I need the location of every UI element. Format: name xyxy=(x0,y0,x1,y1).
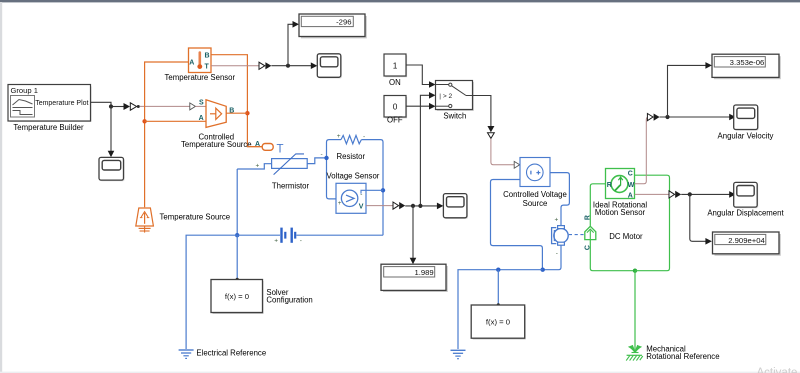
battery DC voltage source xyxy=(274,228,302,245)
wire battery row to battery xyxy=(237,234,280,236)
svg-text:+: + xyxy=(338,200,342,207)
PS wire sensor T output xyxy=(211,65,259,67)
svg-text:Rotational Reference: Rotational Reference xyxy=(646,352,719,361)
wire ON to switch xyxy=(406,65,429,85)
node W junction xyxy=(665,115,669,119)
svg-text:Voltage Sensor: Voltage Sensor xyxy=(327,172,380,181)
node V junction 1 xyxy=(411,204,415,208)
svg-text:+: + xyxy=(337,133,341,140)
wire V signal xyxy=(405,205,437,207)
svg-text:f(x) = 0: f(x) = 0 xyxy=(486,318,510,327)
scope T scope xyxy=(317,54,342,79)
wire down to solver config xyxy=(236,235,238,279)
block Temperature Sensor xyxy=(164,48,235,82)
block Solver Configuration xyxy=(211,280,313,315)
wire bottom rail to ground 2 xyxy=(458,270,543,349)
converter simulink to PS xyxy=(124,103,131,110)
svg-text:+: + xyxy=(274,237,278,244)
green wire C loop xyxy=(635,175,670,271)
svg-text:C: C xyxy=(628,170,633,177)
dashed mechanical connection motor to port xyxy=(569,234,584,236)
svg-text:ON: ON xyxy=(389,78,401,87)
block Controlled Temperature Source xyxy=(181,100,252,149)
wire voltage sensor + output xyxy=(366,189,383,191)
svg-text:T: T xyxy=(277,144,284,156)
svg-text:Switch: Switch xyxy=(443,111,466,120)
node T signal junction xyxy=(286,64,290,68)
node voltage sensor + junction xyxy=(381,188,385,192)
thermal port of thermistor xyxy=(262,144,273,151)
svg-text:A: A xyxy=(628,192,633,199)
svg-text:Temperature Sensor: Temperature Sensor xyxy=(164,73,235,82)
svg-text:Angular Displacement: Angular Displacement xyxy=(707,209,784,218)
resistor R1 xyxy=(329,133,381,161)
wire A down to display xyxy=(690,194,706,241)
canvas top border xyxy=(0,0,800,2)
scope V scope xyxy=(443,194,468,219)
PS wire A output xyxy=(635,193,670,195)
display 1.989 xyxy=(381,264,448,292)
converter PS to simulink W xyxy=(647,114,653,121)
wire CVS + to motor xyxy=(550,173,569,226)
wire builder output xyxy=(91,102,112,106)
svg-text:Thermistor: Thermistor xyxy=(272,182,310,191)
svg-text:+: + xyxy=(256,162,260,169)
svg-text:Resistor: Resistor xyxy=(336,152,365,161)
svg-text:Temperature Source: Temperature Source xyxy=(181,140,252,149)
scope Temperature Plot scope xyxy=(99,157,125,181)
svg-text:-: - xyxy=(363,134,365,141)
node builder junction xyxy=(109,104,113,108)
wire V down to display xyxy=(412,206,414,259)
canvas bottom border xyxy=(0,372,800,373)
wire thermistor thermal port xyxy=(247,146,262,148)
wire to controlled temp source A port xyxy=(145,120,206,122)
converter PS to simulink xyxy=(393,202,399,209)
node A junction xyxy=(688,192,692,196)
wire resistor loop right vertical xyxy=(381,140,384,236)
node green junction xyxy=(633,269,637,273)
wire thermal net B (sensor B right rail) xyxy=(211,55,262,147)
node battery row left junction xyxy=(235,233,239,237)
svg-text:Configuration: Configuration xyxy=(266,296,312,305)
svg-text:0: 0 xyxy=(393,102,398,112)
svg-text:W: W xyxy=(628,182,635,189)
node solver 2 junction xyxy=(496,268,500,272)
block Voltage Sensor xyxy=(327,172,380,214)
mechanical rotational reference xyxy=(626,345,719,362)
svg-text:Electrical Reference: Electrical Reference xyxy=(196,349,266,358)
svg-text:+: + xyxy=(555,217,559,224)
wire left electrical rail xyxy=(236,169,238,235)
svg-text:Motion Sensor: Motion Sensor xyxy=(595,208,646,217)
DC motor icon xyxy=(552,226,569,257)
wire W signal xyxy=(660,116,730,118)
svg-text:A: A xyxy=(199,115,204,122)
svg-text:2.909e+04: 2.909e+04 xyxy=(728,236,765,245)
PS wire voltage sensor V output xyxy=(366,205,393,207)
svg-text:Controlled Voltage: Controlled Voltage xyxy=(503,190,567,199)
node motor bottom junction xyxy=(541,268,545,272)
block Temperature Builder xyxy=(8,85,92,132)
green wire down to rotational reference xyxy=(634,271,636,346)
svg-text:| > 2: | > 2 xyxy=(439,93,452,100)
wire CTS B output xyxy=(226,112,247,114)
svg-text:-: - xyxy=(556,250,558,257)
green wire below house to bottom xyxy=(590,240,635,271)
svg-text:T: T xyxy=(205,64,210,71)
svg-text:A: A xyxy=(189,60,194,67)
svg-text:Temperature Builder: Temperature Builder xyxy=(13,123,84,132)
PS wire to controlled voltage source xyxy=(491,139,514,165)
thermal reference Temperature Source symbol xyxy=(136,208,230,233)
block Ideal Rotational Motion Sensor xyxy=(593,169,647,218)
wire resistor loop left vertical xyxy=(327,140,337,199)
svg-text:Activate W: Activate W xyxy=(757,367,800,373)
block Switch xyxy=(436,81,474,121)
converter simulink to PS (down) xyxy=(487,126,494,132)
svg-text:OFF: OFF xyxy=(387,116,403,125)
arrow into angular velocity scope xyxy=(729,114,736,121)
svg-text:Source: Source xyxy=(523,199,548,208)
scope Angular Velocity xyxy=(718,105,774,140)
svg-text:3.353e-06: 3.353e-06 xyxy=(730,58,765,67)
wire switch output down xyxy=(473,96,491,127)
arrow into angular displacement scope xyxy=(729,191,736,198)
node thermal B junction xyxy=(245,111,249,115)
display -296 xyxy=(299,14,367,38)
svg-text:S: S xyxy=(199,100,204,107)
wire battery to right rail xyxy=(297,234,384,236)
svg-text:A: A xyxy=(255,141,260,148)
arrow into scope xyxy=(311,62,318,69)
svg-text:Group 1: Group 1 xyxy=(11,86,38,95)
svg-text:-: - xyxy=(321,151,323,158)
block constant ON xyxy=(384,54,407,87)
display 3.353e-06 xyxy=(712,54,781,79)
converter PS to simulink A xyxy=(669,191,675,198)
wire up to display -296 xyxy=(288,24,293,65)
PS wire W output xyxy=(635,117,649,184)
wire A signal xyxy=(681,193,729,195)
scope Angular Displacement xyxy=(707,182,784,217)
converter PS to simulink xyxy=(259,62,265,69)
canvas left border xyxy=(0,2,2,373)
svg-text:1: 1 xyxy=(393,60,398,70)
electrical reference ground 2 xyxy=(451,350,466,358)
block constant OFF xyxy=(384,96,407,125)
svg-text:R: R xyxy=(607,182,612,189)
node thermistor junction xyxy=(324,156,328,160)
wire V signal up to switch middle input xyxy=(420,95,429,206)
svg-text:V: V xyxy=(359,204,364,211)
svg-text:Temperature Plot: Temperature Plot xyxy=(35,100,88,107)
svg-text:Angular Velocity: Angular Velocity xyxy=(718,131,774,140)
wire thermal net A (sensor A to left rail) xyxy=(145,62,189,207)
wire motor - to bottom rail xyxy=(543,245,561,269)
electrical reference ground 1 xyxy=(179,349,267,359)
PS wire to S port xyxy=(140,105,190,107)
arrow into V scope xyxy=(437,203,444,210)
display 2.909e+04 xyxy=(713,232,781,256)
wire to electrical reference xyxy=(186,235,237,349)
svg-text:Temperature Source: Temperature Source xyxy=(160,212,231,221)
connection port house R xyxy=(584,215,596,250)
block Thermistor xyxy=(237,151,326,191)
wire OFF to switch xyxy=(406,105,429,107)
svg-text:-: - xyxy=(300,238,302,245)
wire down to solver 2 xyxy=(497,270,499,305)
green wire R to sensor xyxy=(590,184,605,226)
node thermal A junction xyxy=(142,119,146,123)
svg-text:-296: -296 xyxy=(336,18,351,27)
block Solver Configuration 2 xyxy=(471,305,526,340)
wire CVS - down xyxy=(491,180,543,270)
wire W up to display xyxy=(668,65,706,117)
node V junction 2 xyxy=(418,204,422,208)
svg-text:B: B xyxy=(205,53,210,60)
svg-text:f(x) = 0: f(x) = 0 xyxy=(225,292,249,301)
wire branch down to scope xyxy=(110,107,112,152)
svg-text:DC Motor: DC Motor xyxy=(609,232,643,241)
svg-text:B: B xyxy=(229,108,234,115)
wire to junction xyxy=(271,65,313,67)
svg-text:1.989: 1.989 xyxy=(414,268,433,277)
block Controlled Voltage Source xyxy=(503,158,567,208)
svg-text:-: - xyxy=(360,191,362,198)
